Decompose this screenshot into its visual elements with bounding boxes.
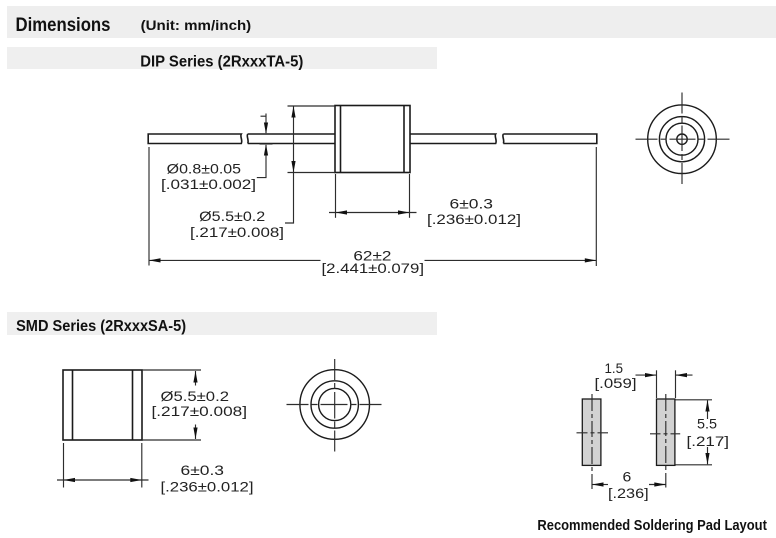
DIP front view circle 3 [666,123,698,155]
svg-text:6±0.3: 6±0.3 [450,196,494,212]
dim 0.8 tick at lead bottom [260,143,273,145]
dim 5.5 bottom extension [288,172,336,174]
left lead segment 2 [247,134,335,144]
arrow pad 6 right [654,482,666,486]
dim 6 DIP right extension [409,174,411,218]
arrow pad 5.5 down [705,453,709,465]
arrow SMD 5.5 up [193,371,197,383]
dim 5.5 pad bottom extension [676,464,713,466]
DIP series bar [7,47,437,69]
svg-text:[.236]: [.236] [608,485,649,501]
arrow SMD 5.5 down [193,428,197,440]
dim 1.5 line right [676,374,693,376]
SMD front view circle 3 [319,388,351,420]
SMD front view circle 2 [311,381,358,428]
SMD dia 5.5 bottom stub [195,425,197,440]
DIP body right cap line [403,106,405,173]
dim 5.5 pad top extension [676,399,713,401]
svg-text:Recommended Soldering Pad Layo: Recommended Soldering Pad Layout [537,518,767,534]
dim 6 pad line left [592,484,608,486]
arrow SMD 6 left [64,478,76,482]
SMD body [63,370,142,440]
DIP front view horizontal centerline [636,138,730,140]
arrow dim6 right [398,210,410,214]
svg-text:[.217±0.008]: [.217±0.008] [190,224,284,240]
dim 6 pad line right [649,484,666,486]
right pad horizontal centerline [650,433,680,435]
dim 5.5 pad top stub [707,400,709,419]
SMD dim6 right extension [141,443,143,488]
DIP front view lead circle [677,134,687,144]
svg-text:Ø5.5±0.2: Ø5.5±0.2 [161,388,230,404]
arrow 5.5 up [291,106,295,118]
arrow 0.8 down [264,123,268,135]
dim 0.8 lower leader [257,145,266,178]
dim 1.5 right extension [675,370,677,398]
dim 1.5 left extension [656,370,658,398]
arrow pad 5.5 up [705,400,709,412]
arrow dim6 left [336,210,348,214]
dim 62 line right part [425,259,597,261]
arrow SMD 6 right [130,478,142,482]
arrow 1.5 left-pointing [676,373,688,377]
SMD body left cap line [72,370,74,440]
SMD bottom extension [142,439,201,441]
dim 62 left extension [148,147,150,266]
arrow 5.5 down [291,161,295,173]
right solder pad [657,399,675,465]
right pad vertical centerline [665,394,667,488]
SMD front view vertical centerline [334,359,336,452]
SMD dia 5.5 top stub [195,371,197,386]
dim 0.8 tick at lead top [260,133,273,135]
arrow 62 left [149,258,161,262]
DIP front view outer circle [648,105,717,174]
svg-text:DIP Series (2RxxxTA-5): DIP Series (2RxxxTA-5) [140,53,303,70]
svg-text:[2.441±0.079]: [2.441±0.079] [322,260,425,276]
arrow pad 6 left [592,482,604,486]
svg-text:(Unit: mm/inch): (Unit: mm/inch) [141,17,252,33]
right lead segment 2 [503,134,597,144]
SMD front view horizontal centerline [287,404,382,406]
SMD dim6 left extension [63,443,65,488]
left pad vertical centerline [591,394,593,489]
svg-text:[.217]: [.217] [687,433,730,449]
left lead segment 1 [148,134,242,144]
dim 6 DIP left extension [335,174,337,218]
svg-text:[.031±0.002]: [.031±0.002] [161,176,256,192]
right lead segment 1 [410,134,496,144]
arrow 0.8 up [264,144,268,156]
SMD dim6 line [57,479,149,481]
dim 62 line left part [149,259,321,261]
svg-text:[.059]: [.059] [595,375,637,391]
arrow 62 right [585,258,597,262]
DIP body [335,106,410,173]
SMD top extension [142,369,201,371]
svg-text:Ø5.5±0.2: Ø5.5±0.2 [199,208,265,224]
svg-text:6: 6 [623,468,632,484]
svg-text:6±0.3: 6±0.3 [181,462,225,478]
dim 6 DIP line [329,212,417,214]
dim 1.5 line left [636,374,657,376]
dim 0.8 upper tick [261,115,267,117]
left pad horizontal centerline [577,432,609,434]
svg-text:Ø0.8±0.05: Ø0.8±0.05 [167,161,242,177]
svg-text:[.236±0.012]: [.236±0.012] [161,478,254,494]
DIP body left cap line [340,106,342,173]
svg-text:[.217±0.008]: [.217±0.008] [152,403,248,419]
left solder pad [582,399,601,465]
header bar [7,6,776,38]
dim 5.5 top extension [288,105,336,107]
dim 62 right extension [595,147,597,266]
svg-text:SMD Series (2RxxxSA-5): SMD Series (2RxxxSA-5) [16,318,186,335]
svg-text:Dimensions: Dimensions [16,15,111,36]
SMD series bar [7,312,437,335]
DIP front view vertical centerline [681,93,683,185]
svg-text:[.236±0.012]: [.236±0.012] [427,211,521,227]
dim 5.5 pad bottom stub [707,447,709,464]
svg-text:5.5: 5.5 [697,416,717,432]
SMD front view outer circle [300,370,370,440]
arrow 1.5 right-pointing [645,373,657,377]
svg-text:1.5: 1.5 [605,360,624,376]
dim 0.8 upper leader [265,114,267,134]
dim 5.5 vertical leader [285,107,294,224]
SMD body right cap line [132,370,134,440]
DIP front view circle 2 [659,117,704,162]
